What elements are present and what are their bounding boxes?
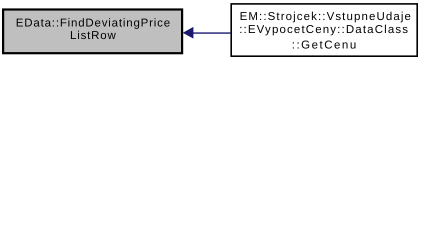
node EData::FindDeviatingPriceListRow [3,10,182,54]
svg-text:EM::Strojcek::VstupneUdaje: EM::Strojcek::VstupneUdaje [240,11,412,23]
node EM::Strojcek::VstupneUdaje::EVypocetCeny::DataClass::GetCenu [231,4,417,56]
svg-text:ListRow: ListRow [70,30,117,42]
svg-text:::GetCenu: ::GetCenu [292,40,358,52]
svg-text:EData::FindDeviatingPrice: EData::FindDeviatingPrice [16,18,171,30]
wire call edge [184,28,232,38]
svg-text:::EVypocetCeny::DataClass: ::EVypocetCeny::DataClass [239,24,409,36]
